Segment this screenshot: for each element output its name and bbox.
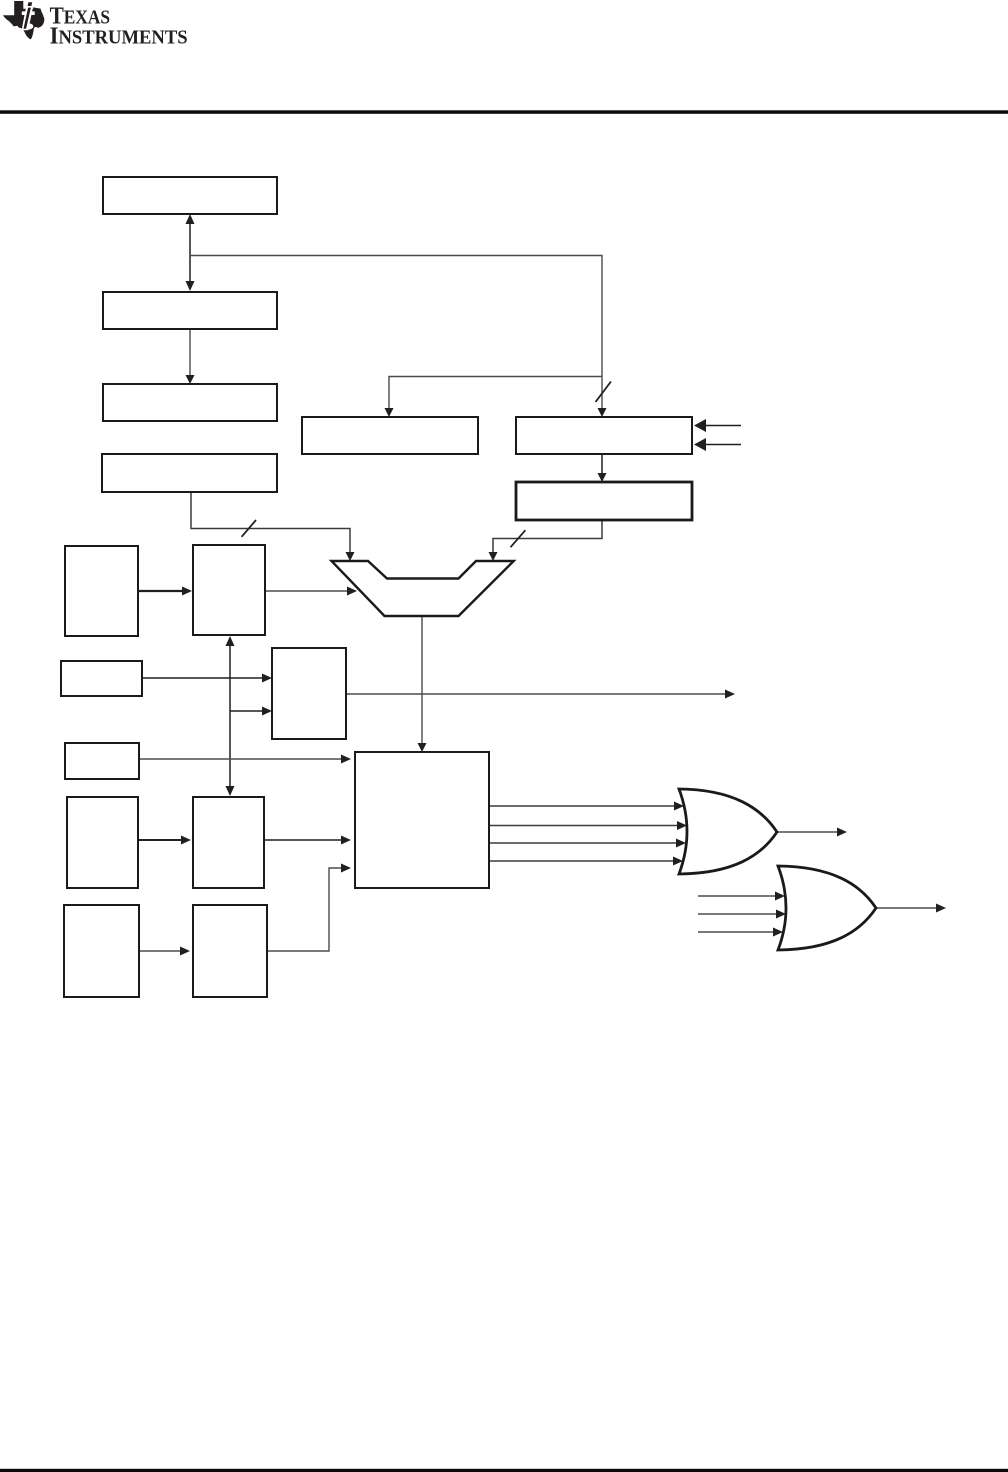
wire: branch from B1/B2 link across to right column [190, 256, 607, 418]
wire: OR gate G2 output [876, 904, 946, 913]
big box (comparator block) [355, 752, 489, 888]
box G [67, 797, 138, 888]
wire: box G to box F [138, 836, 191, 845]
wire: box H to box I [139, 947, 190, 956]
box A [65, 546, 138, 636]
box I [193, 905, 267, 997]
wire: big box output 4 to OR gate G1 [489, 857, 683, 866]
box Bmid (middle register) [302, 417, 478, 454]
mux (trapezoid multiplexer) [332, 561, 514, 616]
header rule [0, 110, 1008, 114]
wire: mux output down into big box [418, 616, 427, 752]
svg-text:INSTRUMENTS: INSTRUMENTS [50, 22, 188, 49]
bus-width slash on vertical wire at x=602 [596, 382, 612, 403]
wire: double arrow between box B1 and box B2 [186, 214, 195, 291]
wire: big box output 1 to OR gate G1 [489, 802, 684, 811]
wire: OR gate G2 input 2 [698, 910, 786, 919]
wire: OR gate G2 input 1 [698, 892, 785, 901]
wire: box E to big box [139, 755, 351, 764]
wire: vertical double arrow between box B and box F [226, 636, 235, 796]
wire: external input 2 into right box [694, 438, 741, 451]
wire: OR gate G2 input 3 [698, 928, 783, 937]
wire: box B to mux data input [265, 587, 357, 596]
box Bright2 (lower right register, bold) [516, 482, 692, 520]
box B [193, 545, 265, 635]
box E [65, 743, 139, 779]
wire: branch from vertical bus into box D second input [230, 707, 272, 716]
wire: box D long output to the right [346, 690, 735, 699]
wire: external input 1 into right box [694, 419, 741, 432]
wire: big box output 2 to OR gate G1 [489, 821, 687, 830]
box C [61, 661, 142, 696]
wire: box C to box D [142, 674, 272, 683]
box F [193, 797, 264, 888]
wire: B2 to B3 [186, 329, 195, 384]
bus-width slash on lower-right-box-to-mux wire [511, 530, 526, 547]
box D [272, 648, 346, 739]
TI logo: Texas map with ti monogram [3, 1, 44, 39]
bus-width slash on B4-to-mux wire [242, 520, 256, 537]
TI logo wordmark [50, 2, 188, 49]
box B4 [102, 454, 277, 492]
wire: B4 down/right into mux left select input [191, 492, 355, 561]
box B1 (top left) [103, 177, 277, 214]
wire: big box output 3 to OR gate G1 [489, 839, 686, 848]
wire: box I up into big box lower input [267, 864, 351, 952]
wire: lower right box down/left into mux right select input [489, 520, 603, 561]
box H [64, 905, 139, 997]
footer rule [0, 1469, 1008, 1472]
OR gate G1 [679, 789, 777, 874]
wire: box F to big box [264, 836, 351, 845]
box Bright (right register) [516, 417, 692, 454]
wire: OR gate G1 output [777, 828, 847, 837]
box B2 [103, 292, 277, 329]
OR gate G2 [778, 866, 876, 950]
wire: right box down into lower right box [598, 454, 607, 482]
box B3 [103, 384, 277, 421]
wire: box A to box B [138, 587, 192, 596]
